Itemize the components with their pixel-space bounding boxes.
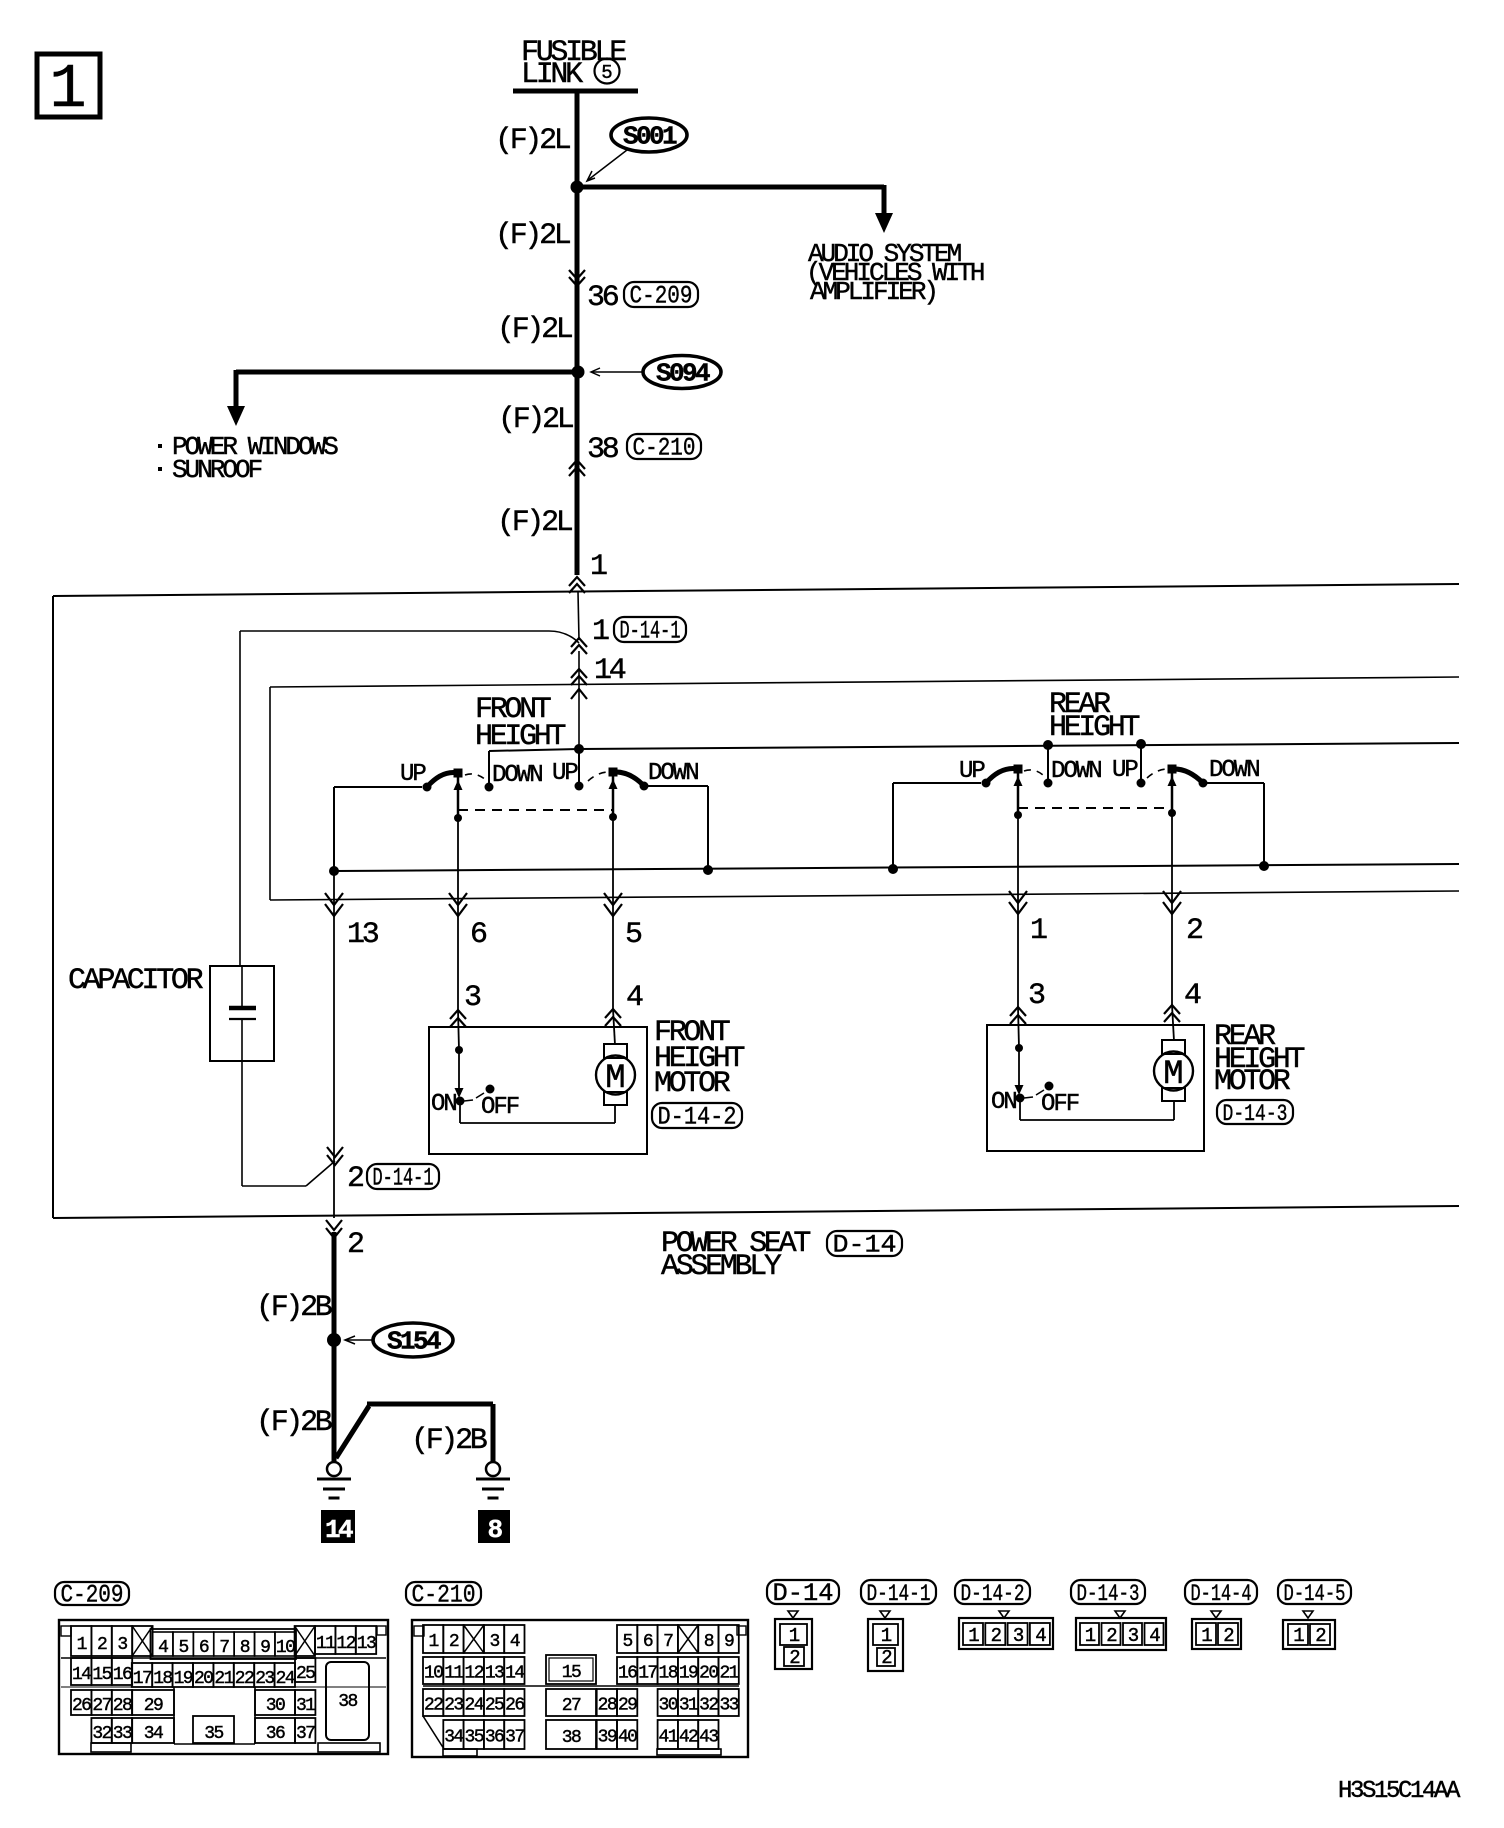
svg-text:35: 35 bbox=[465, 1728, 484, 1748]
wire (F)2L from fusible link bbox=[575, 91, 580, 187]
front switch 1 wire to ground bus bbox=[333, 787, 335, 871]
fusible link bus bar bbox=[513, 89, 638, 94]
svg-text:(F)2L: (F)2L bbox=[497, 313, 573, 347]
height switch box top edge bbox=[270, 677, 1459, 687]
svg-text:2: 2 bbox=[449, 1632, 459, 1652]
front motor limit node bbox=[455, 1046, 463, 1054]
front switch 2 DOWN contact bbox=[640, 782, 649, 791]
connector D-14-3 pill bottom bbox=[1071, 1580, 1145, 1604]
svg-text:33: 33 bbox=[113, 1724, 132, 1744]
front switch 2 DOWN wire to ground bus bbox=[644, 785, 708, 787]
svg-text:(F)2B: (F)2B bbox=[411, 1424, 487, 1458]
svg-text:DOWN: DOWN bbox=[1051, 758, 1101, 785]
connector C-210 pill bottom bbox=[406, 1582, 481, 1605]
arrow from S154 to splice bbox=[346, 1339, 372, 1341]
svg-text:7: 7 bbox=[219, 1638, 229, 1658]
splice S094 callout bbox=[643, 356, 721, 389]
svg-text:UP: UP bbox=[1112, 757, 1138, 784]
svg-text:2: 2 bbox=[97, 1635, 107, 1655]
rear motor limit switch arrow bbox=[1015, 1085, 1024, 1095]
svg-text:8: 8 bbox=[704, 1632, 714, 1652]
ground symbol 8 bbox=[486, 1462, 500, 1476]
front switch 1 gang node bbox=[454, 814, 462, 822]
connector D-14-2 pill bottom bbox=[955, 1580, 1030, 1604]
svg-text:(F)2L: (F)2L bbox=[498, 403, 574, 437]
svg-text:5: 5 bbox=[625, 918, 642, 952]
front switch 1 UP contact bbox=[423, 783, 432, 792]
rear motor pin 3 chevron bbox=[1010, 1007, 1026, 1024]
svg-text:UP: UP bbox=[959, 758, 985, 785]
svg-text:21: 21 bbox=[719, 1664, 738, 1684]
svg-text:1: 1 bbox=[881, 1625, 892, 1647]
svg-text:36: 36 bbox=[266, 1724, 285, 1744]
svg-text:14: 14 bbox=[72, 1665, 91, 1685]
connector C-210 pill bbox=[627, 434, 701, 459]
svg-text:(F)2B: (F)2B bbox=[256, 1291, 332, 1325]
svg-text:14: 14 bbox=[505, 1664, 524, 1684]
svg-text:1: 1 bbox=[590, 550, 607, 584]
svg-text:2: 2 bbox=[991, 1625, 1002, 1647]
svg-text:34: 34 bbox=[444, 1728, 463, 1748]
svg-text:32: 32 bbox=[92, 1724, 111, 1744]
connector D-14-3 pinout bbox=[1115, 1611, 1125, 1618]
svg-text:2: 2 bbox=[347, 1228, 363, 1262]
svg-text:3: 3 bbox=[1028, 979, 1045, 1013]
svg-text:12: 12 bbox=[465, 1664, 484, 1684]
svg-text:2: 2 bbox=[1106, 1625, 1117, 1647]
svg-text:11: 11 bbox=[316, 1634, 335, 1654]
svg-text:5: 5 bbox=[623, 1632, 633, 1652]
ground 14 box bbox=[321, 1510, 355, 1543]
wire pin 13 down bbox=[333, 871, 335, 1150]
svg-text:1: 1 bbox=[592, 615, 609, 649]
rear motor wire pin 4 internal bbox=[1172, 1005, 1174, 1041]
power seat assembly box top edge bbox=[53, 584, 1459, 596]
svg-text:28: 28 bbox=[598, 1696, 617, 1716]
rear switch 2 DOWN wire to ground bus bbox=[1203, 782, 1264, 784]
svg-text:1: 1 bbox=[1293, 1625, 1304, 1647]
svg-text:C-210: C-210 bbox=[633, 434, 696, 463]
front height motor box bbox=[429, 1027, 647, 1154]
capacitor C1 symbol bbox=[241, 966, 243, 1006]
rear limit switch blade bbox=[1024, 1097, 1033, 1098]
svg-text:C-209: C-209 bbox=[630, 282, 693, 311]
svg-text:38: 38 bbox=[562, 1728, 581, 1748]
rear motor bottom wire bbox=[1019, 1098, 1021, 1120]
feed node rear down bbox=[1136, 739, 1146, 749]
svg-text:15: 15 bbox=[562, 1663, 581, 1683]
height switch box left edge bbox=[269, 687, 271, 900]
svg-text:25: 25 bbox=[485, 1696, 504, 1716]
svg-text:6: 6 bbox=[199, 1638, 209, 1658]
rear switch 1 DOWN contact bbox=[1044, 779, 1053, 788]
svg-text:CAPACITOR: CAPACITOR bbox=[68, 964, 204, 998]
ground bus node front down bbox=[703, 865, 713, 875]
svg-text:41: 41 bbox=[659, 1728, 678, 1748]
wire to audio system bbox=[577, 185, 884, 190]
connector D-14-3 pill bbox=[1217, 1100, 1293, 1124]
ground 8 box bbox=[478, 1510, 510, 1543]
rear switch 2 pole wire bbox=[1171, 773, 1174, 813]
wire pin 2 to assembly edge bbox=[333, 1150, 335, 1218]
svg-text:3: 3 bbox=[117, 1635, 127, 1655]
svg-text:9: 9 bbox=[724, 1632, 734, 1652]
rear switch 2 blade bbox=[1172, 769, 1203, 783]
pin 1 D-14-1 chevron bbox=[571, 638, 587, 654]
connector chevron pin 36 bbox=[569, 270, 585, 286]
rear switch 1 UP contact bbox=[982, 779, 991, 788]
rear switch 1 gang node bbox=[1014, 811, 1022, 819]
svg-text:4: 4 bbox=[1184, 979, 1201, 1013]
wire branch to ground 8 bbox=[336, 1406, 369, 1458]
svg-text:1: 1 bbox=[49, 54, 86, 125]
pin 6 chevron bbox=[449, 893, 467, 916]
svg-text:OFF: OFF bbox=[481, 1094, 519, 1121]
front motor pin 4 chevron bbox=[605, 1009, 621, 1026]
rear height motor box bbox=[987, 1025, 1204, 1151]
svg-text:D-14: D-14 bbox=[773, 1579, 834, 1608]
svg-text:S154: S154 bbox=[387, 1327, 441, 1357]
svg-text:LINK: LINK bbox=[521, 58, 583, 92]
svg-text:3: 3 bbox=[464, 981, 481, 1015]
connector C-209 pinout bbox=[59, 1620, 388, 1754]
svg-text:C-209: C-209 bbox=[61, 1581, 124, 1610]
svg-text:36: 36 bbox=[485, 1728, 504, 1748]
pin 5 chevron bbox=[604, 893, 622, 916]
svg-text:21: 21 bbox=[214, 1669, 233, 1689]
svg-text:20: 20 bbox=[699, 1664, 718, 1684]
rear pin 1 chevron bbox=[1009, 891, 1027, 914]
fusible link number circle 5 bbox=[595, 59, 620, 84]
svg-text:(F)2L: (F)2L bbox=[495, 219, 571, 253]
connector D-14-1 pill bottom bbox=[861, 1580, 936, 1604]
feed node front bbox=[574, 744, 584, 754]
bullet power windows bbox=[158, 444, 162, 448]
svg-text:2: 2 bbox=[881, 1647, 892, 1669]
svg-text:29: 29 bbox=[618, 1696, 637, 1716]
svg-text:ASSEMBLY: ASSEMBLY bbox=[661, 1250, 782, 1284]
front switch 2 UP contact bbox=[575, 782, 584, 791]
ground bus node rear down bbox=[1259, 861, 1269, 871]
wire (F)2L segment 3 bbox=[575, 372, 580, 575]
svg-text:MOTOR: MOTOR bbox=[654, 1067, 731, 1101]
svg-text:35: 35 bbox=[204, 1724, 223, 1744]
svg-text:D-14-2: D-14-2 bbox=[961, 1581, 1025, 1607]
svg-text:6: 6 bbox=[643, 1632, 653, 1652]
svg-text:26: 26 bbox=[505, 1696, 524, 1716]
svg-text:1: 1 bbox=[429, 1632, 439, 1652]
front switch 1 blade bbox=[427, 773, 458, 787]
ground bus node rear up bbox=[888, 864, 898, 874]
svg-text:D-14: D-14 bbox=[833, 1231, 897, 1260]
svg-text:D-14-3: D-14-3 bbox=[1223, 1101, 1288, 1127]
svg-text:OFF: OFF bbox=[1041, 1091, 1079, 1118]
svg-text:3: 3 bbox=[1128, 1625, 1139, 1647]
rear limit OFF contact bbox=[1045, 1082, 1054, 1091]
svg-text:12: 12 bbox=[336, 1634, 355, 1654]
svg-text:1: 1 bbox=[789, 1625, 800, 1647]
front motor wire pin 4 internal bbox=[613, 1009, 615, 1045]
rear switches gang link dashed bbox=[1018, 807, 1172, 809]
svg-text:HEIGHT: HEIGHT bbox=[1049, 711, 1140, 745]
front height motor M1 bbox=[604, 1044, 627, 1058]
rear switch 1 travel arc dashed bbox=[1024, 770, 1046, 778]
svg-text:2: 2 bbox=[1315, 1625, 1326, 1647]
rear switch 2 UP contact bbox=[1137, 779, 1146, 788]
svg-text:24: 24 bbox=[465, 1696, 484, 1716]
switch feed bus wire bbox=[489, 749, 579, 751]
svg-text:MOTOR: MOTOR bbox=[1214, 1065, 1291, 1099]
svg-text:40: 40 bbox=[618, 1728, 637, 1748]
front motor limit switch arrow bbox=[455, 1088, 464, 1098]
splice S154 callout bbox=[373, 1323, 453, 1357]
rear motor pin 4 chevron bbox=[1164, 1005, 1180, 1022]
svg-text:13: 13 bbox=[357, 1634, 376, 1654]
svg-text:23: 23 bbox=[444, 1696, 463, 1716]
connector D-14 pill bbox=[827, 1231, 902, 1256]
rear height motor M2 bbox=[1162, 1040, 1185, 1054]
wire (F)2L segment 2 bbox=[575, 187, 580, 372]
svg-text:39: 39 bbox=[598, 1728, 617, 1748]
svg-text:D-14-1: D-14-1 bbox=[620, 617, 681, 646]
rear switch 2 DOWN contact bbox=[1199, 779, 1208, 788]
svg-text:37: 37 bbox=[296, 1724, 315, 1744]
svg-text:31: 31 bbox=[679, 1696, 698, 1716]
svg-text:13: 13 bbox=[485, 1664, 504, 1684]
svg-text:27: 27 bbox=[562, 1696, 581, 1716]
front limit switch blade bbox=[464, 1100, 473, 1101]
svg-text:8: 8 bbox=[487, 1515, 502, 1545]
svg-text:4: 4 bbox=[510, 1632, 520, 1652]
svg-text:1: 1 bbox=[1085, 1625, 1096, 1647]
svg-text:1: 1 bbox=[1201, 1625, 1212, 1647]
ground bus node 13 bbox=[329, 866, 339, 876]
svg-text:2: 2 bbox=[789, 1647, 800, 1669]
svg-text:UP: UP bbox=[400, 761, 426, 788]
wire pin 14 to switch feed bbox=[578, 651, 580, 749]
svg-text:19: 19 bbox=[679, 1664, 698, 1684]
power seat assembly box left edge bbox=[52, 596, 54, 1218]
front switch 2 UP feed wire bbox=[578, 749, 580, 786]
svg-text:S094: S094 bbox=[656, 359, 710, 389]
svg-text:8: 8 bbox=[240, 1638, 250, 1658]
svg-text:16: 16 bbox=[618, 1664, 637, 1684]
svg-text:14: 14 bbox=[594, 654, 626, 688]
splice S001 callout bbox=[611, 118, 687, 152]
svg-text:4: 4 bbox=[626, 981, 643, 1015]
svg-text:15: 15 bbox=[92, 1665, 111, 1685]
bullet sunroof bbox=[158, 467, 162, 471]
svg-text:22: 22 bbox=[424, 1696, 443, 1716]
connector D-14-5 pinout bbox=[1303, 1611, 1313, 1618]
svg-text:24: 24 bbox=[276, 1669, 295, 1689]
rear pin 2 chevron bbox=[1163, 891, 1181, 914]
svg-text:11: 11 bbox=[444, 1664, 463, 1684]
svg-text:2: 2 bbox=[347, 1162, 363, 1196]
switch box entry chevron bbox=[571, 689, 587, 699]
rear switch 1 DOWN feed wire bbox=[1047, 745, 1049, 783]
connector D-14-4 pinout bbox=[1211, 1611, 1221, 1618]
wire from pin 1 to capacitor bbox=[578, 592, 579, 640]
svg-text:18: 18 bbox=[659, 1664, 678, 1684]
svg-text:10: 10 bbox=[424, 1664, 443, 1684]
svg-text:13: 13 bbox=[347, 918, 379, 952]
svg-text:UP: UP bbox=[552, 760, 578, 787]
rear switch 2 gang node bbox=[1168, 809, 1176, 817]
svg-text:(F)2L: (F)2L bbox=[497, 506, 573, 540]
wire capacitor to pin 2 D-14-1 bbox=[242, 1185, 306, 1187]
svg-text:ON: ON bbox=[431, 1091, 456, 1118]
svg-text:3: 3 bbox=[489, 1632, 499, 1652]
front switch 2 gang node bbox=[609, 813, 617, 821]
svg-text:AMPLIFIER): AMPLIFIER) bbox=[810, 277, 936, 307]
svg-text:D-14-1: D-14-1 bbox=[867, 1581, 931, 1607]
svg-text:23: 23 bbox=[255, 1669, 274, 1689]
connector D-14-1 pill lower bbox=[367, 1164, 439, 1189]
front switches gang link dashed bbox=[458, 809, 613, 811]
rear switch 2 UP feed wire bbox=[1140, 744, 1142, 783]
front limit ON contact bbox=[456, 1097, 465, 1106]
svg-text:37: 37 bbox=[505, 1728, 524, 1748]
connector C-209 pill bbox=[624, 282, 698, 307]
svg-text:4: 4 bbox=[1035, 1625, 1046, 1647]
svg-text:26: 26 bbox=[72, 1696, 91, 1716]
front switch 1 DOWN feed wire bbox=[488, 751, 490, 787]
front switch 1 DOWN contact bbox=[485, 783, 494, 792]
svg-text:DOWN: DOWN bbox=[492, 762, 542, 789]
capacitor C1 box bbox=[210, 966, 274, 1061]
power seat assembly box bottom edge bbox=[53, 1206, 1459, 1218]
arrow to audio system bbox=[875, 213, 893, 233]
rear limit ON contact bbox=[1016, 1094, 1025, 1103]
svg-text:34: 34 bbox=[144, 1724, 163, 1744]
svg-text:14: 14 bbox=[325, 1515, 353, 1545]
svg-text:D-14-2: D-14-2 bbox=[658, 1103, 737, 1132]
svg-text:16: 16 bbox=[113, 1665, 132, 1685]
svg-text:4: 4 bbox=[1149, 1625, 1160, 1647]
connector D-14-4 pill bottom bbox=[1185, 1580, 1257, 1604]
svg-text:D-14-1: D-14-1 bbox=[373, 1164, 434, 1193]
connector chevron pin 38 bbox=[569, 460, 585, 476]
connector C-209 pill bottom bbox=[55, 1582, 129, 1605]
svg-text:38: 38 bbox=[587, 433, 619, 467]
switch ground bus wire bbox=[334, 864, 1459, 871]
connector D-14-2 pinout bbox=[999, 1611, 1009, 1618]
rear switch 2 travel arc dashed bbox=[1147, 769, 1168, 778]
svg-text:10: 10 bbox=[276, 1638, 295, 1658]
front switch 2 blade bbox=[613, 772, 644, 786]
svg-text:42: 42 bbox=[679, 1728, 698, 1748]
svg-text:28: 28 bbox=[113, 1696, 132, 1716]
connector D-14 pill bottom bbox=[767, 1580, 839, 1604]
front motor pin 3 chevron bbox=[450, 1010, 466, 1027]
svg-text:30: 30 bbox=[266, 1696, 285, 1716]
arrow from S094 to splice bbox=[592, 371, 643, 373]
splice node S154 bbox=[327, 1333, 341, 1347]
svg-text:1: 1 bbox=[968, 1625, 979, 1647]
connector D-14-5 pill bottom bbox=[1278, 1580, 1351, 1604]
svg-text:5: 5 bbox=[601, 62, 612, 84]
front switch 1 pole wire bbox=[457, 777, 460, 818]
svg-text:27: 27 bbox=[92, 1696, 111, 1716]
front motor bottom wire bbox=[459, 1101, 461, 1123]
connector chevron pin 1 bbox=[569, 577, 585, 593]
svg-text:43: 43 bbox=[699, 1728, 718, 1748]
front switch 2 travel arc dashed bbox=[588, 772, 609, 781]
splice node S094 bbox=[572, 366, 585, 379]
rear switch 1 pole wire bbox=[1017, 773, 1020, 815]
svg-text:3: 3 bbox=[1013, 1625, 1024, 1647]
connector D-14-2 pill bbox=[652, 1103, 742, 1128]
splice node S001 bbox=[571, 181, 584, 194]
svg-text:H3S15C14AA: H3S15C14AA bbox=[1338, 1778, 1461, 1805]
svg-text:33: 33 bbox=[719, 1696, 738, 1716]
svg-text:9: 9 bbox=[260, 1638, 270, 1658]
svg-text:19: 19 bbox=[174, 1669, 193, 1689]
page frame number box 1 bbox=[37, 54, 100, 117]
svg-text:SUNROOF: SUNROOF bbox=[172, 455, 262, 485]
svg-text:2: 2 bbox=[1223, 1625, 1234, 1647]
svg-text:D-14-5: D-14-5 bbox=[1284, 1581, 1346, 1607]
svg-text:1: 1 bbox=[77, 1635, 87, 1655]
wire to power windows / sunroof bbox=[236, 370, 576, 375]
height switch box bottom edge bbox=[270, 891, 1459, 900]
rear motor wire pin 3 internal bbox=[1018, 1007, 1019, 1048]
pin 13 chevron bbox=[325, 893, 343, 916]
svg-text:D-14-4: D-14-4 bbox=[1191, 1581, 1252, 1607]
svg-text:36: 36 bbox=[587, 281, 619, 315]
svg-text:22: 22 bbox=[235, 1669, 254, 1689]
assembly exit pin 2 chevron bbox=[326, 1220, 342, 1238]
pin 2 D-14-1 chevron bbox=[327, 1147, 343, 1165]
svg-text:32: 32 bbox=[699, 1696, 718, 1716]
svg-text:17: 17 bbox=[133, 1669, 152, 1689]
arrow to power windows bbox=[227, 406, 245, 426]
front limit OFF contact bbox=[486, 1085, 495, 1094]
front switch 1 UP contact wire bbox=[334, 786, 422, 788]
svg-text:29: 29 bbox=[144, 1696, 163, 1716]
front switch 2 pole wire bbox=[612, 776, 615, 817]
svg-text:20: 20 bbox=[194, 1669, 213, 1689]
wire (F)2B main bbox=[332, 1232, 337, 1463]
rear motor limit node bbox=[1015, 1044, 1023, 1052]
ground symbol 14 bbox=[327, 1462, 341, 1476]
svg-text:(F)2B: (F)2B bbox=[256, 1406, 332, 1440]
connector D-14 pinout bbox=[788, 1611, 798, 1618]
svg-text:25: 25 bbox=[296, 1664, 315, 1684]
svg-text:30: 30 bbox=[659, 1696, 678, 1716]
svg-text:DOWN: DOWN bbox=[1209, 757, 1259, 784]
svg-text:1: 1 bbox=[1030, 914, 1047, 948]
svg-text:18: 18 bbox=[153, 1669, 172, 1689]
svg-text:D-14-3: D-14-3 bbox=[1077, 1581, 1140, 1607]
feed node rear up bbox=[1043, 740, 1053, 750]
front switch 1 travel arc dashed bbox=[465, 774, 488, 782]
rear switch 1 blade bbox=[986, 769, 1018, 783]
svg-text:4: 4 bbox=[158, 1638, 168, 1658]
connector D-14-1 pill bbox=[614, 617, 686, 642]
connector D-14-1 pinout bbox=[880, 1611, 890, 1618]
svg-text:17: 17 bbox=[638, 1664, 657, 1684]
front motor wire pin 3 internal bbox=[458, 1010, 459, 1050]
svg-text:31: 31 bbox=[296, 1696, 315, 1716]
svg-text:DOWN: DOWN bbox=[648, 760, 698, 787]
svg-text:7: 7 bbox=[663, 1632, 673, 1652]
svg-text:(F)2L: (F)2L bbox=[495, 124, 571, 158]
svg-text:38: 38 bbox=[338, 1692, 357, 1712]
svg-text:6: 6 bbox=[470, 918, 487, 952]
svg-text:C-210: C-210 bbox=[412, 1581, 476, 1610]
